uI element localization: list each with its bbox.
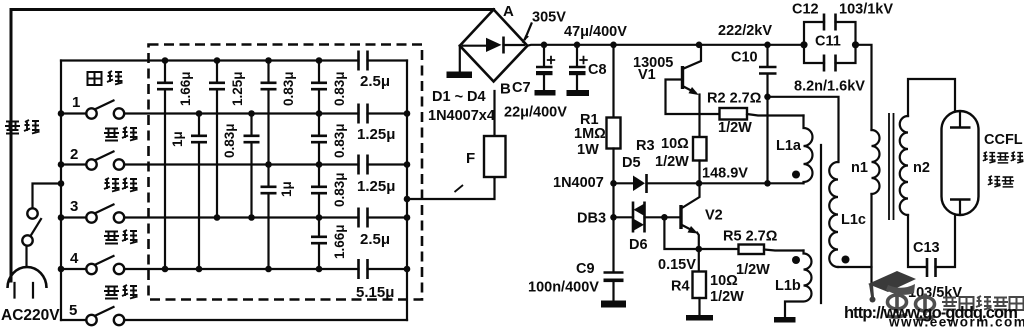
svg-text:C12: C12 [792, 2, 819, 18]
svg-text:0.83μ: 0.83μ [332, 172, 347, 207]
inductor L1c [829, 162, 838, 267]
terminal bar [447, 72, 473, 79]
label: blue wire 蓝线 [104, 230, 138, 244]
svg-text:n2: n2 [913, 160, 930, 176]
wire: top AC live rail [12, 8, 494, 11]
resistor R4 [698, 249, 700, 272]
svg-text:0.83μ: 0.83μ [222, 123, 237, 158]
CCFL tube [942, 111, 979, 215]
capacitor column x=319 (0.83u x3 / 1.66u) [318, 61, 320, 270]
diode D5 [610, 180, 617, 187]
svg-text:100n/400V: 100n/400V [528, 280, 599, 296]
wire: R2 to L1a [747, 114, 804, 116]
capacitor column x=165 (1.66u) [164, 61, 166, 270]
svg-text:D5: D5 [622, 155, 641, 171]
svg-text:R3: R3 [636, 138, 655, 154]
svg-text:1: 1 [72, 94, 80, 111]
svg-text:R4: R4 [671, 279, 690, 295]
svg-text:V2: V2 [705, 208, 723, 224]
resistor R5 [739, 245, 765, 255]
transformer winding n1 [872, 130, 880, 194]
wire: switch5 to right bus bottom [124, 319, 407, 321]
wire: 8.2n line [768, 97, 839, 162]
dashed selection box [149, 45, 423, 300]
AC source dome [8, 267, 47, 288]
svg-text:1N4007x4: 1N4007x4 [428, 108, 495, 124]
svg-text:10Ω: 10Ω [710, 273, 738, 289]
wire: dome top to power switch [25, 246, 27, 267]
watermark graduation cap [868, 271, 916, 303]
wire: left vertical AC feed (brown) [10, 10, 13, 282]
wire: C11/C12 right node to transformer n1 [856, 45, 872, 130]
svg-text:www.eeworm.com: www.eeworm.com [888, 315, 1024, 327]
svg-text:5.15μ: 5.15μ [356, 284, 394, 301]
label: green wire 绿线 [104, 178, 138, 192]
label: white wire 白线 [88, 71, 123, 85]
label: brown wire 棕线 [5, 120, 40, 134]
junction dots on bus [58, 110, 65, 117]
power switch lever [31, 219, 42, 236]
svg-text:0.15V: 0.15V [658, 257, 696, 273]
svg-text:V1: V1 [638, 67, 656, 83]
parallel caps C11 C12 loop [800, 41, 807, 48]
capacitor column x=217 (1.25u) [216, 61, 218, 218]
svg-text:305V: 305V [532, 10, 566, 26]
label: lamp tube 灯管 [988, 176, 1014, 187]
bridge internal diode [463, 44, 524, 47]
svg-text:2: 2 [70, 146, 78, 163]
svg-text:1.25μ: 1.25μ [357, 126, 395, 143]
svg-text:L1c: L1c [841, 212, 866, 228]
svg-text:0.83μ: 0.83μ [332, 123, 347, 158]
svg-text:AC220V: AC220V [1, 307, 60, 324]
series capacitor row1 2.5u [359, 51, 368, 71]
CCFL bottom electrode [950, 198, 971, 201]
resistor R3 [693, 137, 707, 161]
inductor L1b [785, 251, 812, 318]
transformer core [889, 113, 894, 220]
svg-text:D6: D6 [629, 237, 648, 253]
stray scan tick [455, 185, 464, 192]
series capacitor row4 2.5u [359, 208, 368, 228]
wire: main DC rail [527, 44, 804, 47]
series capacitor row3 1.25u [359, 155, 368, 175]
svg-text:C13: C13 [913, 240, 940, 256]
svg-text:1.25μ: 1.25μ [230, 71, 245, 106]
svg-text:8.2n/1.6kV: 8.2n/1.6kV [794, 79, 865, 95]
capacitor C13 [927, 258, 936, 277]
ground C8 [567, 90, 590, 96]
wire: n2 bottom to C13 [908, 215, 926, 267]
watermark text 电子下载站 [942, 296, 1024, 310]
junction dot [58, 180, 65, 187]
label: cold cathode 冷阴极 [983, 152, 1024, 163]
svg-text:DB3: DB3 [577, 211, 606, 227]
svg-text:A: A [503, 3, 514, 20]
wire: R5 to L1b [764, 250, 804, 251]
wire: D5 line to L1a bottom [699, 182, 804, 184]
svg-text:103/1kV: 103/1kV [839, 2, 893, 18]
capacitor C10 [764, 42, 771, 49]
transformer winding n2 [900, 116, 908, 215]
diac D6 [610, 214, 617, 221]
wire: row 5 [124, 268, 407, 270]
svg-text:1.66μ: 1.66μ [178, 71, 193, 106]
svg-text:3: 3 [70, 198, 78, 215]
wire: n1 bottom leg [870, 194, 872, 290]
wire: C10 node down to L1a bottom line [766, 97, 768, 184]
wire: row 2 [124, 112, 407, 114]
label: yellow wire 黄线 [104, 127, 138, 141]
wire: row 3 [124, 163, 407, 165]
svg-text:D1 ~ D4: D1 ~ D4 [432, 89, 486, 105]
capacitor C9 [612, 217, 614, 301]
svg-text:148.9V: 148.9V [702, 166, 748, 182]
svg-text:C9: C9 [576, 261, 595, 277]
svg-text:222/2kV: 222/2kV [718, 23, 772, 39]
svg-text:10Ω: 10Ω [661, 136, 689, 152]
watermark bug characters 虫虫 [888, 292, 936, 320]
polarity dot L1a [792, 171, 800, 179]
svg-text:R2 2.7Ω: R2 2.7Ω [707, 91, 762, 107]
wire: switch bus vertical [60, 61, 62, 321]
ground L1b [774, 317, 796, 323]
ground R4 [686, 315, 713, 321]
capacitor column x=251.5 (0.83u) [250, 114, 252, 218]
svg-text:1.25μ: 1.25μ [357, 178, 395, 195]
svg-text:0.83μ: 0.83μ [281, 71, 296, 106]
wire: V2 emitter down [697, 233, 699, 250]
svg-text:2.5μ: 2.5μ [360, 231, 390, 248]
svg-text:C10: C10 [731, 50, 758, 66]
resistor R1 [610, 42, 617, 49]
wire: V2 base to DB3 junction [664, 216, 681, 218]
svg-text:47μ/400V: 47μ/400V [564, 24, 627, 40]
svg-text:1.66μ: 1.66μ [332, 224, 347, 259]
wire: n2 top to CCFL top [908, 79, 955, 116]
svg-text:C11: C11 [815, 34, 841, 50]
svg-text:CCFL: CCFL [984, 132, 1023, 148]
wire: V1 emitter down to R3 [698, 95, 700, 138]
CCFL top electrode [959, 112, 961, 127]
svg-text:0.83μ: 0.83μ [332, 71, 347, 106]
wire: V1 base to R2 [666, 80, 720, 115]
wire: matrix right bus [406, 61, 408, 321]
svg-text:1N4007: 1N4007 [553, 175, 604, 191]
resistor R2 [720, 108, 748, 120]
capacitor column x=268.5 (0.83u / 1u) [267, 61, 269, 270]
svg-text:1/2W: 1/2W [718, 120, 752, 136]
svg-text:F: F [466, 150, 475, 167]
ground C7 [535, 90, 556, 96]
wire: matrix output to fuse [407, 178, 495, 199]
svg-text:1μ: 1μ [279, 181, 294, 197]
wire: row 4 [124, 216, 407, 218]
svg-text:1/2W: 1/2W [710, 289, 744, 305]
svg-text:L1b: L1b [775, 278, 801, 294]
svg-text:L1a: L1a [776, 138, 802, 154]
core line L1 [820, 145, 822, 303]
svg-text:2.5μ: 2.5μ [360, 73, 390, 90]
svg-text:5: 5 [69, 302, 77, 319]
wire: DB3 junction down to emitter line [664, 217, 738, 249]
fuse F [493, 91, 495, 178]
svg-text:C8: C8 [588, 62, 607, 78]
svg-text:1W: 1W [577, 142, 599, 158]
svg-text:R5 2.7Ω: R5 2.7Ω [723, 229, 778, 245]
label: black wire 黑线 [104, 285, 138, 299]
AC source legs [15, 283, 34, 298]
bridge rectifier diamond [460, 10, 528, 82]
svg-text:n1: n1 [851, 160, 868, 176]
polarity dot L1b [792, 256, 800, 264]
svg-text:1MΩ: 1MΩ [574, 126, 606, 142]
svg-text:4: 4 [70, 250, 79, 267]
power switch circles [22, 235, 32, 245]
wire: row 1 [61, 59, 407, 61]
svg-text:1/2W: 1/2W [655, 154, 689, 170]
capacitor C7 electrolytic [541, 42, 548, 49]
capacitor column x=199 (1u) [198, 114, 200, 270]
svg-text:C7: C7 [512, 80, 531, 96]
svg-text:1μ: 1μ [170, 131, 185, 147]
wire: power switch to bus [33, 184, 62, 209]
svg-text:22μ/400V: 22μ/400V [504, 105, 567, 121]
wire: L1c bottom to n1 leg [838, 266, 872, 268]
svg-text:1/2W: 1/2W [736, 262, 770, 278]
svg-text:B: B [500, 81, 511, 98]
capacitor C8 electrolytic [574, 42, 581, 49]
ground C9 [601, 301, 626, 308]
inductor L1a [804, 116, 813, 184]
series capacitor row2 1.25u [359, 104, 368, 124]
polarity dot L1c [842, 256, 850, 264]
wire: bridge left corner stub [459, 46, 461, 72]
series capacitor row5 5.15u [359, 259, 368, 279]
